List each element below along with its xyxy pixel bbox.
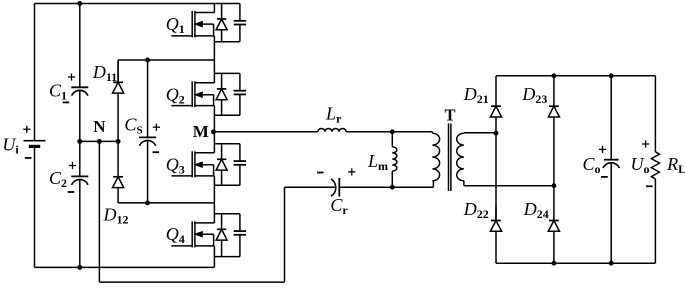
svg-text:Q3: Q3	[166, 155, 185, 177]
svg-text:Q2: Q2	[166, 85, 185, 107]
svg-text:D21: D21	[463, 84, 489, 106]
svg-text:Uo: Uo	[631, 154, 650, 176]
svg-text:Q4: Q4	[166, 224, 185, 246]
svg-text:Ui: Ui	[2, 135, 19, 157]
svg-text:Lm: Lm	[367, 151, 388, 173]
svg-text:T: T	[444, 105, 455, 124]
svg-text:Q1: Q1	[166, 14, 185, 36]
svg-text:N: N	[93, 117, 106, 136]
svg-text:Lr: Lr	[325, 104, 342, 126]
svg-text:D11: D11	[92, 62, 117, 84]
svg-text:CS: CS	[124, 115, 142, 137]
svg-text:Cr: Cr	[330, 195, 348, 217]
svg-text:C1: C1	[49, 81, 67, 103]
svg-text:D12: D12	[103, 204, 129, 226]
svg-text:Co: Co	[582, 154, 600, 176]
svg-text:D24: D24	[523, 199, 549, 221]
svg-text:D22: D22	[463, 199, 489, 221]
svg-text:D23: D23	[521, 84, 547, 106]
svg-text:C2: C2	[49, 168, 67, 190]
svg-text:M: M	[193, 122, 209, 141]
svg-text:RL: RL	[666, 154, 685, 176]
